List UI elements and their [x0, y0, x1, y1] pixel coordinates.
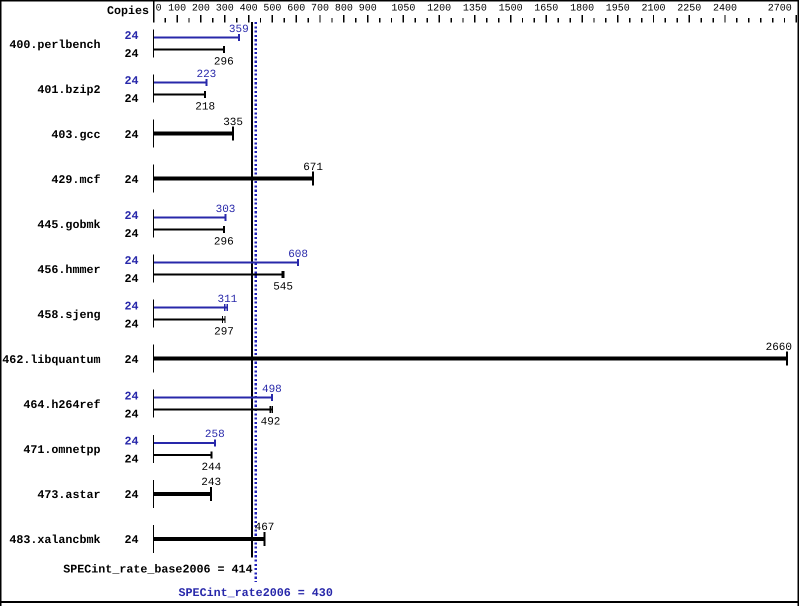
peak value label 498 [262, 384, 282, 396]
base bar 471.omnetpp = 244 [154, 451, 212, 458]
start bracket 464.h264ref [153, 390, 154, 418]
start bracket 403.gcc [153, 120, 154, 148]
svg-text:24: 24 [124, 254, 138, 268]
start bracket 473.astar [153, 480, 154, 508]
svg-text:1950: 1950 [606, 3, 630, 14]
start bracket 429.mcf [153, 165, 154, 193]
base bar 456.hmmer = 545 [154, 271, 285, 278]
base value label 671 [303, 162, 323, 174]
base bar 400.perlbench = 296 [154, 46, 225, 53]
peak bar 456.hmmer = 608 [154, 259, 299, 266]
svg-text:24: 24 [124, 92, 138, 106]
benchmark label 458.sjeng [37, 308, 100, 322]
svg-text:700: 700 [311, 3, 329, 14]
base bar 464.h264ref = 492 [154, 406, 273, 413]
base bar 458.sjeng = 297 [154, 316, 226, 323]
peak value label 359 [229, 24, 249, 36]
benchmark label 464.h264ref [23, 398, 100, 412]
svg-text:400.perlbench: 400.perlbench [9, 38, 100, 52]
base value label 243 [201, 477, 221, 489]
svg-text:24: 24 [124, 533, 138, 547]
peak copies label 400.perlbench [124, 29, 138, 43]
svg-text:24: 24 [124, 488, 138, 502]
svg-text:500: 500 [263, 3, 281, 14]
svg-text:471.omnetpp: 471.omnetpp [23, 443, 100, 457]
axis scale labels [156, 3, 792, 14]
svg-text:24: 24 [124, 389, 138, 403]
svg-text:223: 223 [196, 69, 216, 81]
svg-text:24: 24 [124, 74, 138, 88]
benchmark label 445.gobmk [37, 218, 100, 232]
base bar 483.xalancbmk = 467 [154, 532, 266, 546]
svg-text:297: 297 [214, 327, 234, 339]
start bracket 401.bzip2 [153, 75, 154, 103]
svg-text:SPECint_rate_base2006 = 414: SPECint_rate_base2006 = 414 [63, 563, 252, 577]
base value label 297 [214, 327, 234, 339]
svg-text:24: 24 [124, 317, 138, 331]
svg-text:492: 492 [261, 417, 281, 429]
svg-text:445.gobmk: 445.gobmk [37, 218, 100, 232]
base bar 445.gobmk = 296 [154, 226, 225, 233]
base copies label 458.sjeng [124, 317, 138, 331]
svg-text:2660: 2660 [766, 342, 792, 354]
svg-text:483.xalancbmk: 483.xalancbmk [9, 533, 100, 547]
svg-text:429.mcf: 429.mcf [51, 173, 100, 187]
peak bar 400.perlbench = 359 [154, 34, 240, 41]
peak copies label 464.h264ref [124, 389, 138, 403]
base bar 401.bzip2 = 218 [154, 91, 206, 98]
svg-text:258: 258 [205, 429, 225, 441]
peak copies label 471.omnetpp [124, 434, 138, 448]
svg-text:244: 244 [201, 462, 221, 474]
svg-text:24: 24 [124, 407, 138, 421]
svg-text:24: 24 [124, 29, 138, 43]
base value label 218 [195, 102, 215, 114]
svg-text:400: 400 [240, 3, 258, 14]
copies label 483.xalancbmk [124, 533, 138, 547]
svg-text:243: 243 [201, 477, 221, 489]
svg-text:2400: 2400 [713, 3, 737, 14]
svg-text:467: 467 [255, 522, 275, 534]
svg-text:2100: 2100 [641, 3, 665, 14]
base copies label 464.h264ref [124, 407, 138, 421]
peak value label 311 [217, 294, 237, 306]
svg-text:1200: 1200 [427, 3, 451, 14]
svg-text:462.libquantum: 462.libquantum [2, 353, 100, 367]
svg-text:2250: 2250 [677, 3, 701, 14]
axis divider line [153, 1, 154, 23]
svg-text:900: 900 [359, 3, 377, 14]
base value label 467 [255, 522, 275, 534]
svg-text:24: 24 [124, 272, 138, 286]
svg-text:1650: 1650 [534, 3, 558, 14]
svg-text:24: 24 [124, 353, 138, 367]
benchmark label 471.omnetpp [23, 443, 100, 457]
svg-text:296: 296 [214, 57, 234, 69]
start bracket 483.xalancbmk [153, 525, 154, 553]
peak copies label 458.sjeng [124, 299, 138, 313]
svg-text:24: 24 [124, 452, 138, 466]
base bar 403.gcc = 335 [154, 127, 234, 141]
start bracket 445.gobmk [153, 210, 154, 238]
base value label 2660 [766, 342, 792, 354]
svg-text:24: 24 [124, 47, 138, 61]
svg-text:600: 600 [287, 3, 305, 14]
base bar 473.astar = 243 [154, 487, 212, 501]
peak copies label 456.hmmer [124, 254, 138, 268]
svg-text:464.h264ref: 464.h264ref [23, 398, 100, 412]
svg-text:403.gcc: 403.gcc [51, 128, 100, 142]
svg-text:545: 545 [273, 282, 293, 294]
svg-text:24: 24 [124, 173, 138, 187]
benchmark label 456.hmmer [37, 263, 100, 277]
base copies label 471.omnetpp [124, 452, 138, 466]
svg-text:800: 800 [335, 3, 353, 14]
svg-text:401.bzip2: 401.bzip2 [37, 83, 100, 97]
peak value label 608 [288, 249, 308, 261]
svg-text:311: 311 [217, 294, 237, 306]
svg-text:1500: 1500 [499, 3, 523, 14]
benchmark label 473.astar [37, 488, 100, 502]
svg-text:Copies: Copies [107, 4, 149, 18]
base copies label 400.perlbench [124, 47, 138, 61]
SPECint_rate_base2006 summary text [63, 563, 252, 577]
SPECint_rate_base2006 solid marker line (414) [251, 22, 253, 558]
Copies column header [107, 4, 149, 18]
base value label 545 [273, 282, 293, 294]
SPECint_rate2006 summary text [179, 586, 333, 600]
svg-text:458.sjeng: 458.sjeng [37, 308, 100, 322]
peak value label 258 [205, 429, 225, 441]
peak bar 464.h264ref = 498 [154, 394, 273, 401]
start bracket 462.libquantum [153, 345, 154, 373]
base value label 244 [201, 462, 221, 474]
copies label 473.astar [124, 488, 138, 502]
svg-text:100: 100 [168, 3, 186, 14]
svg-text:24: 24 [124, 434, 138, 448]
base value label 335 [223, 117, 243, 129]
base copies label 445.gobmk [124, 227, 138, 241]
base copies label 401.bzip2 [124, 92, 138, 106]
svg-text:335: 335 [223, 117, 243, 129]
peak copies label 401.bzip2 [124, 74, 138, 88]
svg-text:24: 24 [124, 128, 138, 142]
start bracket 456.hmmer [153, 255, 154, 283]
benchmark label 429.mcf [51, 173, 100, 187]
base bar 429.mcf = 671 [154, 172, 314, 186]
svg-text:200: 200 [192, 3, 210, 14]
peak bar 458.sjeng = 311 [154, 304, 228, 311]
svg-text:1800: 1800 [570, 3, 594, 14]
peak bar 445.gobmk = 303 [154, 214, 227, 221]
svg-text:473.astar: 473.astar [37, 488, 100, 502]
benchmark label 462.libquantum [2, 353, 100, 367]
svg-text:608: 608 [288, 249, 308, 261]
base bar 462.libquantum = 2660 [154, 352, 788, 366]
SPECint_rate2006 dotted marker line (430) [255, 22, 257, 582]
svg-text:296: 296 [214, 237, 234, 249]
base value label 296 [214, 57, 234, 69]
copies label 403.gcc [124, 128, 138, 142]
peak bar 471.omnetpp = 258 [154, 439, 216, 446]
axis tick marks [165, 15, 798, 22]
svg-text:1350: 1350 [463, 3, 487, 14]
peak copies label 445.gobmk [124, 209, 138, 223]
svg-text:1050: 1050 [391, 3, 415, 14]
svg-text:456.hmmer: 456.hmmer [37, 263, 100, 277]
peak value label 303 [216, 204, 236, 216]
copies label 462.libquantum [124, 353, 138, 367]
svg-text:SPECint_rate2006 = 430: SPECint_rate2006 = 430 [179, 586, 333, 600]
svg-text:24: 24 [124, 209, 138, 223]
peak bar 401.bzip2 = 223 [154, 79, 207, 86]
svg-text:0: 0 [156, 3, 162, 14]
svg-text:218: 218 [195, 102, 215, 114]
svg-text:359: 359 [229, 24, 249, 36]
benchmark label 403.gcc [51, 128, 100, 142]
svg-text:300: 300 [216, 3, 234, 14]
start bracket 400.perlbench [153, 30, 154, 58]
svg-text:498: 498 [262, 384, 282, 396]
benchmark label 401.bzip2 [37, 83, 100, 97]
start bracket 458.sjeng [153, 300, 154, 328]
base copies label 456.hmmer [124, 272, 138, 286]
svg-text:2700: 2700 [768, 3, 792, 14]
copies label 429.mcf [124, 173, 138, 187]
svg-text:671: 671 [303, 162, 323, 174]
peak value label 223 [196, 69, 216, 81]
base value label 296 [214, 237, 234, 249]
svg-text:24: 24 [124, 227, 138, 241]
start bracket 471.omnetpp [153, 435, 154, 463]
base value label 492 [261, 417, 281, 429]
svg-text:303: 303 [216, 204, 236, 216]
benchmark label 400.perlbench [9, 38, 100, 52]
svg-text:24: 24 [124, 299, 138, 313]
benchmark label 483.xalancbmk [9, 533, 100, 547]
